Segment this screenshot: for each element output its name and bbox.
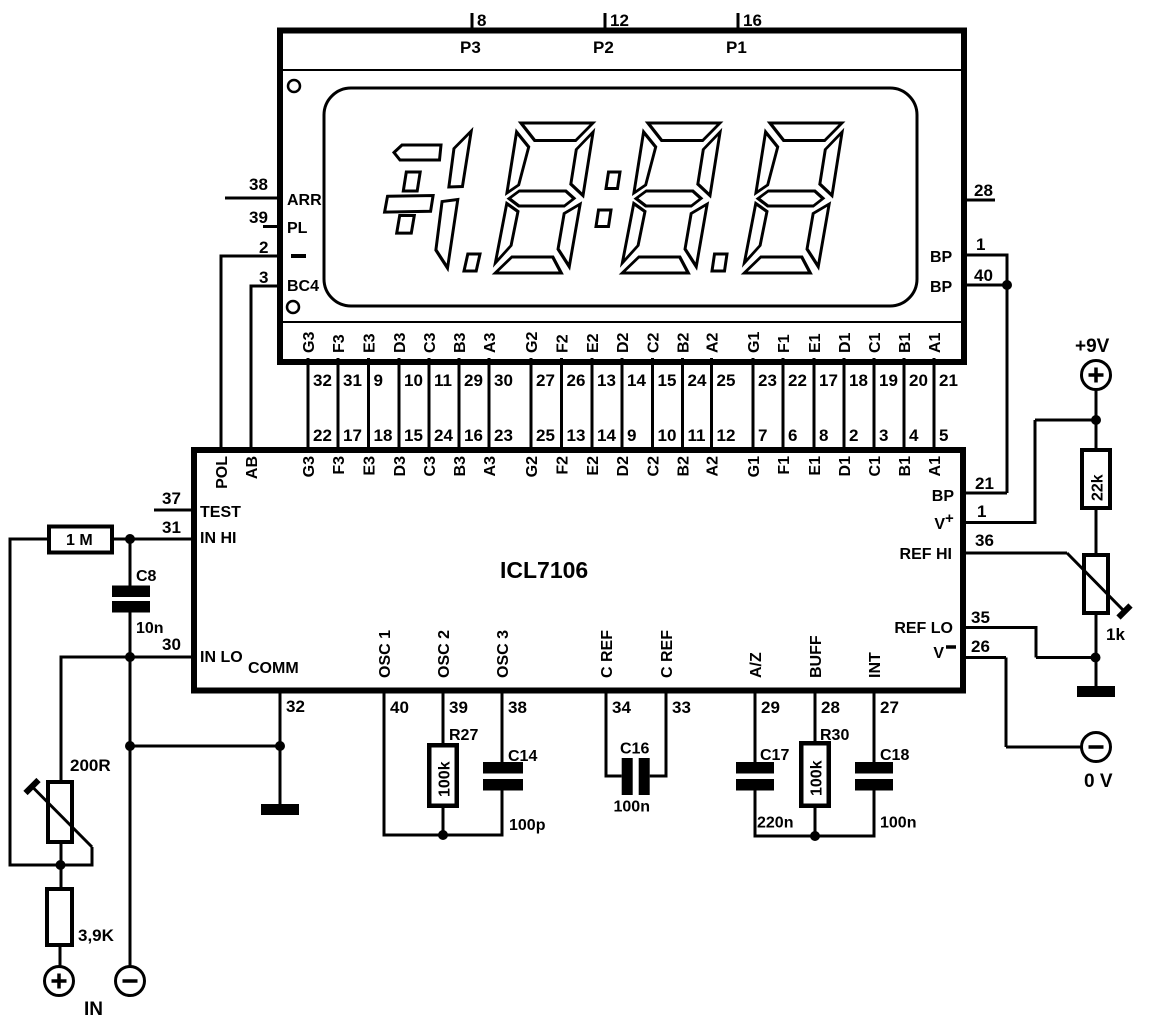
svg-text:+9V: +9V (1075, 336, 1110, 357)
svg-text:100n: 100n (614, 799, 650, 816)
svg-text:12: 12 (717, 426, 736, 445)
svg-text:P2: P2 (593, 38, 614, 57)
svg-text:OSC 2: OSC 2 (436, 630, 453, 678)
svg-text:38: 38 (508, 698, 527, 717)
svg-text:A3: A3 (482, 456, 499, 477)
svg-text:31: 31 (162, 518, 181, 537)
svg-text:40: 40 (974, 266, 993, 285)
svg-text:25: 25 (717, 371, 736, 390)
svg-text:BUFF: BUFF (808, 635, 825, 678)
svg-text:C2: C2 (645, 456, 662, 477)
svg-text:POL: POL (214, 456, 231, 489)
svg-text:E1: E1 (807, 333, 824, 353)
svg-text:23: 23 (758, 371, 777, 390)
svg-text:13: 13 (597, 371, 616, 390)
svg-text:A2: A2 (704, 456, 721, 477)
svg-text:PL: PL (287, 220, 308, 237)
svg-text:R27: R27 (449, 727, 478, 744)
svg-text:D1: D1 (837, 332, 854, 353)
svg-text:21: 21 (975, 474, 994, 493)
svg-text:27: 27 (536, 371, 555, 390)
svg-text:18: 18 (849, 371, 868, 390)
svg-text:3: 3 (259, 268, 268, 287)
svg-text:REF LO: REF LO (894, 620, 953, 637)
svg-text:39: 39 (249, 208, 268, 227)
svg-text:C16: C16 (620, 741, 649, 758)
svg-text:REF HI: REF HI (900, 546, 952, 563)
svg-text:100k: 100k (437, 761, 454, 797)
svg-text:D2: D2 (615, 332, 632, 353)
svg-text:IN LO: IN LO (200, 649, 243, 666)
svg-text:IN: IN (84, 999, 103, 1020)
svg-text:17: 17 (819, 371, 838, 390)
svg-text:4: 4 (909, 426, 919, 445)
svg-text:7: 7 (758, 426, 767, 445)
svg-text:V: V (934, 516, 945, 533)
svg-text:D3: D3 (392, 456, 409, 477)
svg-text:15: 15 (404, 426, 423, 445)
svg-text:C14: C14 (508, 748, 537, 765)
svg-text:22k: 22k (1090, 474, 1107, 501)
svg-text:220n: 220n (757, 815, 793, 832)
svg-text:39: 39 (449, 698, 468, 717)
svg-text:OSC 1: OSC 1 (377, 630, 394, 678)
svg-text:C1: C1 (867, 332, 884, 353)
svg-text:15: 15 (658, 371, 677, 390)
svg-text:C REF: C REF (659, 630, 676, 678)
svg-text:D3: D3 (392, 332, 409, 353)
svg-text:9: 9 (374, 371, 383, 390)
svg-text:37: 37 (162, 489, 181, 508)
svg-text:8: 8 (477, 11, 486, 30)
svg-text:C3: C3 (422, 332, 439, 353)
svg-text:29: 29 (761, 698, 780, 717)
svg-text:27: 27 (880, 698, 899, 717)
svg-text:BC4: BC4 (287, 278, 319, 295)
svg-text:G3: G3 (301, 332, 318, 353)
svg-text:13: 13 (567, 426, 586, 445)
svg-text:10n: 10n (136, 620, 164, 637)
svg-text:B3: B3 (452, 456, 469, 477)
svg-text:26: 26 (567, 371, 586, 390)
svg-text:P3: P3 (460, 38, 481, 57)
svg-text:34: 34 (612, 698, 631, 717)
svg-text:9: 9 (627, 426, 636, 445)
svg-text:G1: G1 (746, 456, 763, 477)
svg-text:C8: C8 (136, 568, 157, 585)
svg-text:F1: F1 (776, 456, 793, 475)
svg-text:F2: F2 (554, 456, 571, 475)
svg-text:28: 28 (821, 698, 840, 717)
svg-text:1: 1 (976, 235, 985, 254)
svg-text:E2: E2 (585, 333, 602, 353)
svg-text:BP: BP (930, 279, 953, 296)
svg-text:16: 16 (464, 426, 483, 445)
svg-text:TEST: TEST (200, 504, 241, 521)
svg-text:24: 24 (434, 426, 453, 445)
svg-text:24: 24 (688, 371, 707, 390)
svg-text:G2: G2 (524, 332, 541, 353)
svg-text:F1: F1 (776, 334, 793, 353)
svg-text:16: 16 (743, 11, 762, 30)
svg-text:BP: BP (932, 488, 955, 505)
svg-text:A1: A1 (927, 456, 944, 477)
svg-text:26: 26 (971, 637, 990, 656)
svg-text:IN HI: IN HI (200, 530, 236, 547)
svg-text:C17: C17 (760, 747, 789, 764)
svg-text:19: 19 (879, 371, 898, 390)
svg-text:E1: E1 (807, 456, 824, 476)
svg-text:F2: F2 (554, 334, 571, 353)
svg-text:40: 40 (390, 698, 409, 717)
svg-text:22: 22 (313, 426, 332, 445)
svg-text:29: 29 (464, 371, 483, 390)
svg-text:32: 32 (313, 371, 332, 390)
svg-text:C18: C18 (880, 747, 909, 764)
svg-text:D1: D1 (837, 456, 854, 477)
svg-text:5: 5 (939, 426, 948, 445)
svg-text:11: 11 (688, 426, 706, 445)
svg-text:11: 11 (434, 371, 452, 390)
svg-text:12: 12 (610, 11, 629, 30)
svg-text:35: 35 (971, 608, 990, 627)
svg-text:14: 14 (627, 371, 646, 390)
svg-text:C2: C2 (645, 332, 662, 353)
svg-text:2: 2 (849, 426, 858, 445)
svg-text:A/Z: A/Z (748, 652, 765, 678)
svg-text:V: V (933, 645, 944, 662)
svg-text:D2: D2 (615, 456, 632, 477)
svg-text:14: 14 (597, 426, 616, 445)
svg-text:A2: A2 (704, 332, 721, 353)
svg-text:25: 25 (536, 426, 555, 445)
svg-text:P1: P1 (726, 38, 747, 57)
svg-text:AB: AB (244, 456, 261, 479)
svg-text:E3: E3 (361, 456, 378, 476)
svg-text:INT: INT (867, 652, 884, 678)
svg-text:A1: A1 (927, 332, 944, 353)
svg-text:18: 18 (374, 426, 393, 445)
svg-text:10: 10 (658, 426, 677, 445)
svg-text:100k: 100k (809, 760, 826, 796)
svg-text:30: 30 (162, 635, 181, 654)
svg-text:32: 32 (286, 697, 305, 716)
svg-text:E3: E3 (361, 333, 378, 353)
svg-text:0 V: 0 V (1084, 771, 1113, 792)
svg-text:3: 3 (879, 426, 888, 445)
svg-text:6: 6 (788, 426, 797, 445)
svg-text:1k: 1k (1106, 625, 1125, 644)
svg-text:B3: B3 (452, 332, 469, 353)
svg-text:1: 1 (977, 502, 986, 521)
svg-text:22: 22 (788, 371, 807, 390)
svg-text:G3: G3 (301, 456, 318, 477)
svg-text:33: 33 (672, 698, 691, 717)
svg-text:C1: C1 (867, 456, 884, 477)
svg-text:36: 36 (975, 531, 994, 550)
svg-text:ICL7106: ICL7106 (500, 557, 588, 583)
svg-text:+: + (945, 510, 954, 527)
svg-text:ARR: ARR (287, 192, 322, 209)
svg-text:F3: F3 (331, 456, 348, 475)
svg-text:C REF: C REF (599, 630, 616, 678)
svg-text:B1: B1 (897, 332, 914, 353)
svg-text:B2: B2 (675, 332, 692, 353)
svg-text:A3: A3 (482, 332, 499, 353)
svg-text:8: 8 (819, 426, 828, 445)
svg-text:1 M: 1 M (66, 532, 93, 549)
svg-text:200R: 200R (70, 756, 111, 775)
svg-text:G2: G2 (524, 456, 541, 477)
svg-text:C3: C3 (422, 456, 439, 477)
svg-text:R30: R30 (820, 727, 849, 744)
svg-text:F3: F3 (331, 334, 348, 353)
svg-text:E2: E2 (585, 456, 602, 476)
svg-text:B2: B2 (675, 456, 692, 477)
svg-text:20: 20 (909, 371, 928, 390)
svg-text:10: 10 (404, 371, 423, 390)
svg-text:21: 21 (939, 371, 958, 390)
svg-text:BP: BP (930, 249, 953, 266)
svg-text:31: 31 (343, 371, 362, 390)
svg-text:30: 30 (494, 371, 513, 390)
svg-text:17: 17 (343, 426, 362, 445)
svg-text:23: 23 (494, 426, 513, 445)
svg-text:100n: 100n (880, 815, 916, 832)
svg-text:COMM: COMM (248, 660, 299, 677)
svg-text:B1: B1 (897, 456, 914, 477)
svg-text:28: 28 (974, 181, 993, 200)
svg-text:100p: 100p (509, 817, 546, 834)
svg-text:2: 2 (259, 238, 268, 257)
svg-text:38: 38 (249, 175, 268, 194)
svg-text:3,9K: 3,9K (78, 926, 115, 945)
svg-text:G1: G1 (746, 332, 763, 353)
svg-text:OSC 3: OSC 3 (495, 630, 512, 678)
